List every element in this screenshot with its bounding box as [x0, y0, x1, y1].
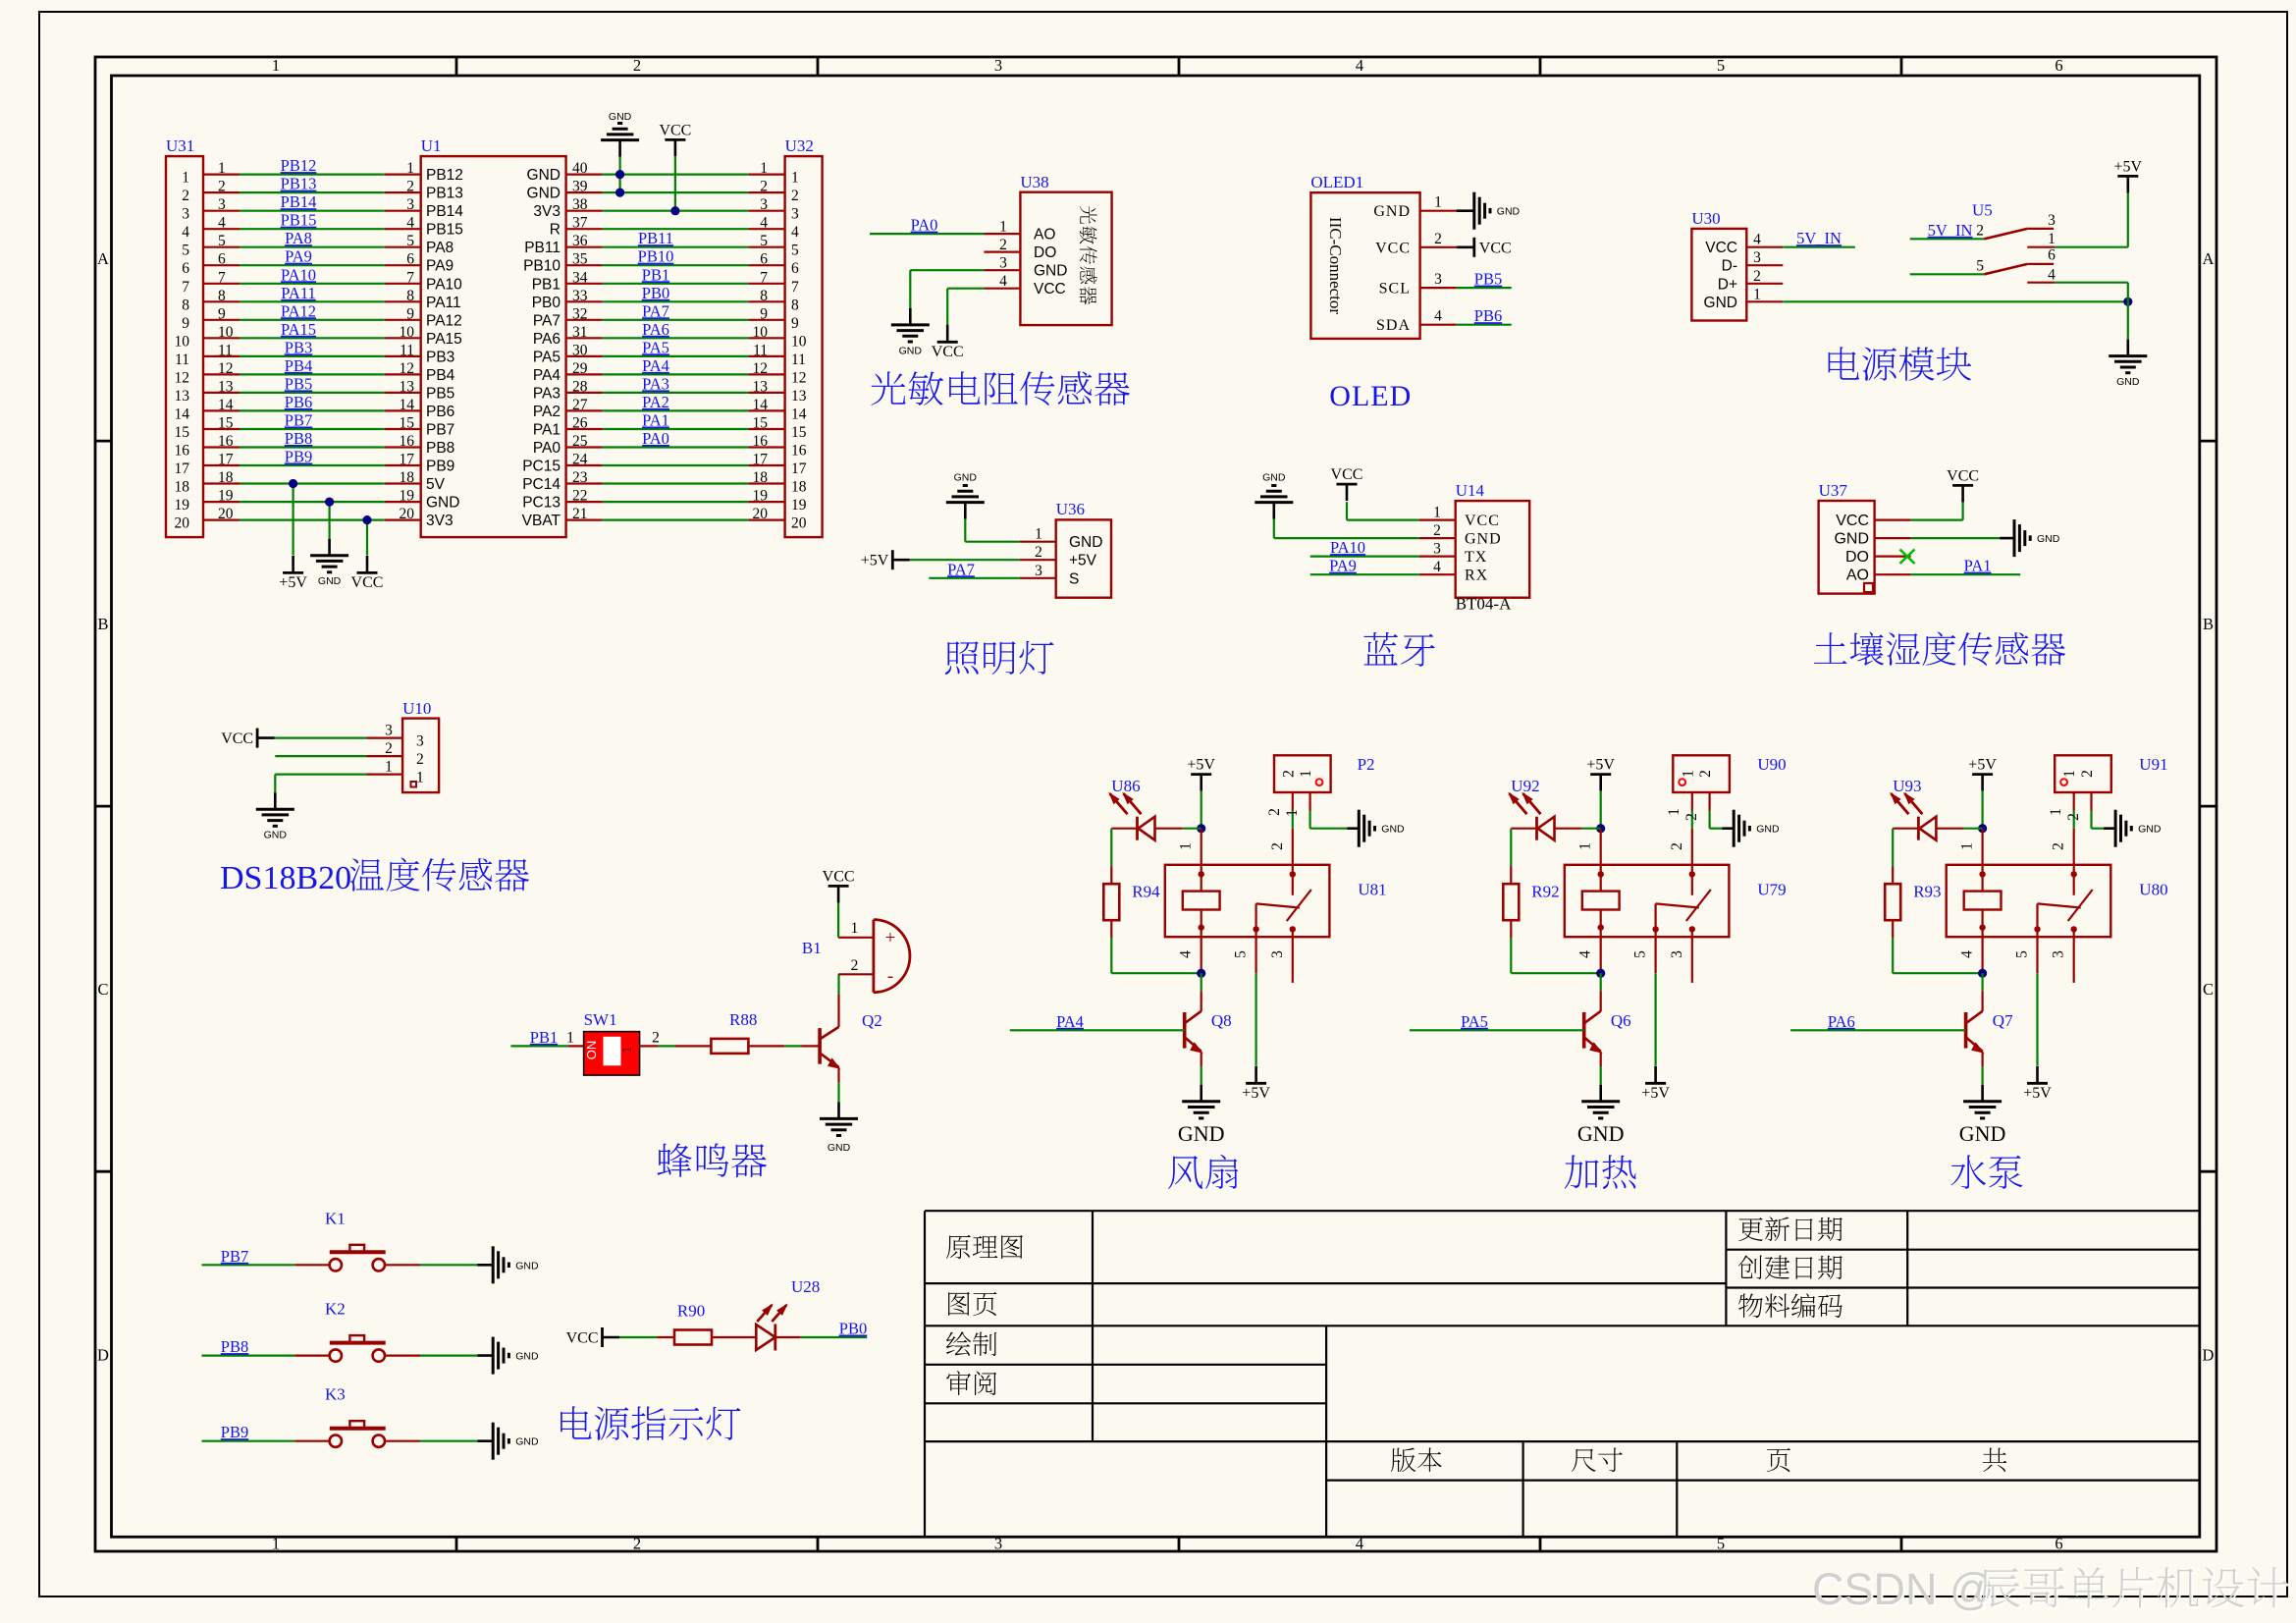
svg-text:3: 3 [406, 196, 414, 213]
svg-text:18: 18 [218, 469, 234, 486]
svg-text:K2: K2 [325, 1300, 346, 1319]
svg-text:U92: U92 [1511, 777, 1539, 795]
svg-text:GND: GND [899, 345, 923, 356]
svg-text:35: 35 [572, 251, 588, 268]
svg-text:U93: U93 [1893, 777, 1921, 795]
svg-text:20: 20 [753, 506, 769, 522]
svg-text:4: 4 [1178, 950, 1195, 958]
svg-text:36: 36 [572, 233, 588, 249]
svg-text:5: 5 [1632, 950, 1649, 958]
svg-text:PB11: PB11 [524, 240, 561, 256]
svg-text:12: 12 [218, 360, 234, 377]
svg-text:2: 2 [633, 1535, 641, 1553]
svg-text:PB0: PB0 [839, 1320, 867, 1338]
svg-text:GND: GND [527, 186, 561, 202]
svg-text:2: 2 [1669, 842, 1685, 850]
svg-text:20: 20 [791, 515, 807, 532]
svg-text:1: 1 [272, 1535, 280, 1553]
svg-text:GND: GND [2116, 376, 2140, 388]
svg-text:9: 9 [791, 315, 799, 332]
svg-text:17: 17 [400, 452, 415, 468]
svg-text:PA9: PA9 [1329, 557, 1357, 575]
svg-text:U28: U28 [791, 1277, 820, 1296]
svg-text:2: 2 [652, 1029, 660, 1046]
svg-text:2: 2 [1976, 223, 1984, 240]
svg-text:PB15: PB15 [426, 222, 463, 239]
svg-text:PA0: PA0 [533, 440, 561, 457]
svg-text:U37: U37 [1819, 481, 1848, 500]
svg-text:R93: R93 [1913, 883, 1941, 901]
svg-text:PB10: PB10 [523, 258, 561, 275]
svg-text:6: 6 [2048, 247, 2056, 264]
svg-text:2: 2 [182, 188, 189, 204]
svg-text:PA8: PA8 [285, 229, 312, 247]
svg-text:+: + [885, 928, 896, 948]
svg-text:3: 3 [1753, 249, 1761, 266]
svg-text:PA1: PA1 [642, 411, 669, 430]
svg-text:VCC: VCC [1331, 466, 1363, 483]
svg-text:9: 9 [406, 305, 414, 322]
svg-text:SCL: SCL [1379, 281, 1411, 298]
svg-text:PA1: PA1 [1964, 557, 1992, 575]
svg-text:10: 10 [753, 324, 769, 341]
svg-text:S: S [1069, 570, 1079, 587]
svg-text:P2: P2 [1358, 755, 1375, 774]
svg-text:PA0: PA0 [911, 216, 938, 235]
svg-text:PA11: PA11 [281, 284, 315, 302]
svg-text:PB9: PB9 [426, 459, 454, 475]
svg-text:1: 1 [1434, 194, 1442, 211]
svg-text:9: 9 [182, 315, 189, 332]
svg-text:4: 4 [2048, 266, 2056, 283]
svg-text:PB7: PB7 [426, 422, 454, 439]
svg-text:2: 2 [1280, 770, 1297, 778]
svg-text:PA3: PA3 [533, 385, 561, 402]
svg-text:VCC: VCC [351, 574, 384, 591]
svg-text:3: 3 [994, 56, 1002, 75]
svg-text:7: 7 [406, 269, 414, 286]
svg-text:27: 27 [572, 397, 588, 413]
svg-text:K1: K1 [325, 1209, 346, 1227]
svg-text:19: 19 [753, 488, 769, 505]
svg-text:7: 7 [218, 269, 226, 286]
svg-text:PB1: PB1 [532, 276, 561, 293]
svg-text:PB7: PB7 [221, 1247, 248, 1266]
svg-text:D: D [2203, 1345, 2215, 1364]
svg-text:1: 1 [1433, 505, 1441, 521]
svg-text:28: 28 [572, 378, 588, 395]
svg-text:CSDN @: CSDN @ [1812, 1564, 1995, 1614]
svg-text:13: 13 [218, 378, 234, 395]
svg-text:11: 11 [218, 342, 233, 358]
svg-text:1: 1 [2048, 231, 2056, 247]
svg-text:DO: DO [1034, 244, 1056, 261]
svg-text:OLED: OLED [1329, 380, 1412, 412]
svg-text:PB4: PB4 [426, 367, 455, 384]
svg-text:U81: U81 [1358, 881, 1386, 899]
svg-text:GND: GND [1262, 472, 1286, 484]
svg-text:15: 15 [753, 415, 769, 432]
svg-text:1: 1 [1680, 770, 1696, 778]
svg-text:12: 12 [400, 360, 415, 377]
svg-text:B: B [97, 615, 108, 633]
svg-text:PC15: PC15 [522, 459, 561, 475]
svg-text:1: 1 [1284, 809, 1301, 817]
svg-text:GND: GND [2138, 824, 2162, 836]
svg-text:PB0: PB0 [532, 295, 561, 311]
svg-text:34: 34 [572, 269, 588, 286]
svg-text:14: 14 [753, 397, 769, 413]
svg-text:6: 6 [760, 251, 768, 268]
svg-text:3: 3 [1433, 541, 1441, 558]
svg-text:13: 13 [753, 378, 769, 395]
svg-text:2: 2 [999, 237, 1007, 253]
svg-text:PB1: PB1 [530, 1028, 558, 1047]
svg-text:6: 6 [791, 260, 799, 277]
svg-text:PA9: PA9 [285, 247, 312, 266]
svg-text:DS18B20: DS18B20 [220, 860, 351, 896]
svg-text:16: 16 [175, 443, 190, 460]
svg-text:D: D [97, 1345, 109, 1364]
svg-text:19: 19 [175, 497, 190, 514]
svg-text:R88: R88 [729, 1010, 757, 1029]
svg-text:PB12: PB12 [281, 156, 317, 175]
svg-text:GND: GND [515, 1260, 539, 1271]
svg-text:8: 8 [406, 288, 414, 304]
svg-text:C: C [97, 980, 108, 999]
svg-text:3: 3 [1669, 950, 1685, 958]
svg-text:23: 23 [572, 469, 588, 486]
svg-text:PA15: PA15 [281, 320, 316, 339]
svg-text:U36: U36 [1056, 500, 1085, 518]
svg-text:VCC: VCC [1947, 467, 1979, 484]
svg-text:2: 2 [1269, 842, 1286, 850]
svg-text:1: 1 [619, 1046, 634, 1053]
svg-text:PA5: PA5 [533, 349, 561, 365]
svg-text:PA6: PA6 [533, 331, 561, 348]
svg-text:PB3: PB3 [285, 338, 312, 356]
svg-text:B: B [2203, 615, 2214, 633]
svg-text:7: 7 [760, 269, 768, 286]
svg-text:6: 6 [406, 251, 414, 268]
svg-text:GND: GND [1756, 824, 1780, 836]
svg-text:PA5: PA5 [642, 338, 669, 356]
svg-text:5: 5 [2014, 950, 2031, 958]
svg-text:14: 14 [218, 397, 234, 413]
svg-text:U31: U31 [166, 136, 194, 155]
svg-text:PA8: PA8 [426, 240, 454, 256]
svg-text:3: 3 [218, 196, 226, 213]
svg-text:+5V: +5V [1242, 1085, 1270, 1102]
svg-text:PA1: PA1 [533, 422, 561, 439]
svg-text:4: 4 [1433, 559, 1441, 575]
svg-text:19: 19 [218, 488, 234, 505]
svg-text:5: 5 [182, 243, 189, 259]
svg-text:PA2: PA2 [642, 393, 669, 411]
svg-text:33: 33 [572, 288, 588, 304]
svg-text:PA9: PA9 [426, 258, 454, 275]
svg-text:25: 25 [572, 433, 588, 450]
svg-text:GND: GND [1577, 1121, 1625, 1146]
svg-text:31: 31 [572, 324, 588, 341]
svg-text:PA7: PA7 [947, 560, 975, 578]
svg-text:13: 13 [400, 378, 415, 395]
svg-text:4: 4 [791, 224, 799, 241]
svg-text:10: 10 [791, 333, 807, 350]
svg-text:4: 4 [218, 215, 226, 232]
svg-text:6: 6 [218, 251, 226, 268]
svg-text:22: 22 [572, 488, 588, 505]
svg-text:2: 2 [1035, 544, 1042, 561]
svg-text:PB7: PB7 [285, 411, 312, 430]
svg-text:2: 2 [385, 740, 393, 757]
svg-text:PB9: PB9 [285, 448, 312, 466]
svg-text:17: 17 [218, 452, 234, 468]
svg-text:VCC: VCC [1375, 240, 1411, 256]
svg-text:1: 1 [2061, 770, 2078, 778]
svg-text:PA6: PA6 [642, 320, 669, 339]
svg-text:VCC: VCC [566, 1330, 599, 1347]
svg-text:2: 2 [633, 56, 641, 75]
svg-text:+5V: +5V [1187, 757, 1215, 774]
svg-text:U90: U90 [1757, 755, 1786, 774]
svg-text:11: 11 [175, 352, 189, 368]
svg-text:4: 4 [182, 224, 189, 241]
svg-text:PA7: PA7 [642, 301, 669, 320]
svg-text:PB9: PB9 [221, 1423, 248, 1441]
svg-text:GND: GND [1497, 206, 1521, 218]
svg-text:VCC: VCC [1479, 240, 1512, 256]
svg-text:PA5: PA5 [1461, 1012, 1488, 1031]
svg-text:AO: AO [1034, 227, 1055, 243]
svg-text:8: 8 [182, 297, 189, 313]
svg-text:GND: GND [426, 495, 459, 512]
svg-text:PB13: PB13 [426, 186, 463, 202]
svg-text:11: 11 [400, 342, 414, 358]
svg-text:2: 2 [2051, 842, 2067, 850]
svg-text:GND: GND [1834, 531, 1869, 548]
svg-text:+5V: +5V [2023, 1085, 2052, 1102]
svg-text:TX: TX [1465, 549, 1487, 566]
svg-text:PA10: PA10 [281, 265, 316, 284]
svg-text:8: 8 [218, 288, 226, 304]
svg-text:1: 1 [1577, 842, 1594, 850]
svg-text:A: A [2203, 249, 2215, 268]
svg-text:3: 3 [416, 733, 424, 750]
svg-text:2: 2 [1433, 522, 1441, 539]
svg-text:12: 12 [753, 360, 769, 377]
svg-text:PA6: PA6 [1828, 1012, 1855, 1031]
svg-text:4: 4 [999, 273, 1007, 290]
svg-text:PB0: PB0 [642, 284, 669, 302]
svg-text:PB5: PB5 [1474, 270, 1502, 289]
svg-text:16: 16 [791, 443, 807, 460]
svg-text:2: 2 [2079, 770, 2096, 778]
svg-text:13: 13 [791, 388, 807, 405]
svg-text:VCC: VCC [1465, 513, 1500, 529]
svg-text:PB8: PB8 [426, 440, 454, 457]
svg-text:VCC: VCC [823, 868, 855, 885]
svg-text:R94: R94 [1132, 883, 1160, 901]
svg-text:GND: GND [1034, 263, 1067, 280]
svg-text:Q7: Q7 [1993, 1011, 2013, 1030]
svg-text:3: 3 [182, 206, 189, 223]
svg-text:2: 2 [1434, 231, 1442, 247]
svg-text:PA7: PA7 [533, 312, 561, 329]
svg-text:5: 5 [218, 233, 226, 249]
svg-text:R92: R92 [1531, 883, 1559, 901]
svg-text:Q8: Q8 [1211, 1011, 1232, 1030]
svg-text:U32: U32 [785, 136, 814, 155]
svg-text:PA11: PA11 [426, 295, 461, 311]
svg-text:40: 40 [572, 160, 588, 177]
svg-text:10: 10 [175, 333, 190, 350]
svg-text:GND: GND [2037, 533, 2060, 545]
svg-text:24: 24 [572, 452, 588, 468]
svg-text:+5V: +5V [1069, 553, 1097, 569]
svg-text:4: 4 [1753, 232, 1761, 248]
svg-text:14: 14 [400, 397, 415, 413]
svg-text:5: 5 [791, 243, 799, 259]
svg-text:1: 1 [851, 920, 859, 937]
svg-text:4: 4 [1356, 1535, 1363, 1553]
svg-text:2: 2 [406, 179, 414, 195]
svg-text:18: 18 [175, 479, 190, 496]
svg-text:4: 4 [760, 215, 768, 232]
svg-text:GND: GND [1178, 1121, 1225, 1146]
svg-text:U1: U1 [421, 136, 442, 155]
svg-text:29: 29 [572, 360, 588, 377]
svg-text:2: 2 [2065, 813, 2082, 821]
svg-text:15: 15 [175, 424, 190, 441]
svg-text:Q6: Q6 [1611, 1011, 1631, 1030]
svg-text:U5: U5 [1972, 201, 1993, 220]
svg-text:20: 20 [400, 506, 415, 522]
svg-text:GND: GND [954, 472, 978, 484]
svg-text:VCC: VCC [221, 730, 253, 747]
svg-text:3: 3 [2048, 212, 2056, 229]
svg-text:SDA: SDA [1376, 317, 1411, 334]
svg-text:PB3: PB3 [426, 349, 454, 365]
svg-text:PB13: PB13 [281, 175, 317, 193]
svg-text:10: 10 [218, 324, 234, 341]
svg-text:1: 1 [1959, 842, 1976, 850]
svg-text:GND: GND [264, 830, 288, 841]
svg-text:1: 1 [1035, 526, 1042, 543]
svg-text:IIC-Connector: IIC-Connector [1326, 217, 1345, 314]
svg-text:12: 12 [175, 369, 190, 386]
svg-text:26: 26 [572, 415, 588, 432]
svg-text:1: 1 [218, 160, 226, 177]
svg-text:1: 1 [1753, 286, 1761, 302]
svg-text:13: 13 [175, 388, 190, 405]
svg-text:3: 3 [385, 723, 393, 739]
svg-text:3: 3 [999, 255, 1007, 272]
svg-text:PB14: PB14 [426, 203, 463, 220]
svg-text:15: 15 [400, 415, 415, 432]
svg-text:16: 16 [218, 433, 234, 450]
svg-text:5V_IN: 5V_IN [1796, 229, 1842, 247]
svg-text:5V: 5V [426, 476, 446, 493]
svg-text:15: 15 [791, 424, 807, 441]
svg-text:VBAT: VBAT [522, 513, 561, 529]
svg-text:3: 3 [1269, 950, 1286, 958]
svg-text:3V3: 3V3 [426, 513, 454, 529]
svg-text:PB11: PB11 [638, 229, 673, 247]
svg-text:32: 32 [572, 305, 588, 322]
svg-text:PB6: PB6 [1474, 306, 1502, 325]
svg-text:5: 5 [406, 233, 414, 249]
svg-text:17: 17 [791, 460, 807, 477]
svg-text:K3: K3 [325, 1385, 346, 1404]
svg-text:PC14: PC14 [522, 476, 561, 493]
svg-text:39: 39 [572, 179, 588, 195]
svg-text:VCC: VCC [932, 344, 964, 360]
svg-text:U38: U38 [1020, 173, 1048, 191]
svg-text:PB8: PB8 [221, 1337, 248, 1356]
svg-text:A: A [97, 249, 109, 268]
svg-text:PB5: PB5 [285, 374, 312, 393]
svg-text:2: 2 [1697, 770, 1714, 778]
svg-text:14: 14 [175, 406, 190, 422]
svg-text:9: 9 [760, 305, 768, 322]
svg-text:+5V: +5V [861, 553, 889, 569]
svg-text:VCC: VCC [1034, 281, 1066, 298]
svg-text:6: 6 [2055, 1535, 2062, 1553]
svg-text:4: 4 [1356, 56, 1363, 75]
svg-text:18: 18 [791, 479, 807, 496]
svg-text:GND: GND [318, 575, 342, 587]
svg-text:5V_IN: 5V_IN [1928, 221, 1973, 240]
svg-text:PB10: PB10 [638, 247, 674, 266]
svg-text:1: 1 [182, 170, 189, 187]
svg-text:3: 3 [994, 1535, 1002, 1553]
svg-text:GND: GND [527, 167, 561, 184]
svg-text:GND: GND [1704, 295, 1737, 311]
svg-text:14: 14 [791, 406, 807, 422]
svg-text:1: 1 [1298, 770, 1314, 778]
svg-text:VCC: VCC [659, 122, 691, 138]
svg-text:3: 3 [2051, 950, 2067, 958]
svg-text:1: 1 [272, 56, 280, 75]
svg-text:4: 4 [406, 215, 414, 232]
svg-text:D+: D+ [1718, 276, 1737, 293]
svg-text:7: 7 [182, 279, 189, 296]
svg-text:GND: GND [1959, 1121, 2006, 1146]
svg-text:2: 2 [1753, 268, 1761, 285]
svg-text:PA0: PA0 [642, 429, 669, 448]
svg-text:U86: U86 [1111, 777, 1140, 795]
svg-text:19: 19 [400, 488, 415, 505]
svg-text:37: 37 [572, 215, 588, 232]
svg-text:2: 2 [1266, 808, 1283, 816]
svg-text:5: 5 [1717, 56, 1725, 75]
svg-text:11: 11 [791, 352, 806, 368]
svg-text:10: 10 [400, 324, 415, 341]
svg-text:3V3: 3V3 [533, 203, 561, 220]
svg-text:B1: B1 [802, 939, 822, 957]
svg-text:GND: GND [828, 1142, 851, 1154]
svg-text:PA4: PA4 [533, 367, 561, 384]
svg-text:VCC: VCC [1705, 240, 1737, 256]
svg-text:PB6: PB6 [426, 404, 454, 420]
svg-text:R90: R90 [677, 1301, 705, 1320]
svg-text:2: 2 [1683, 813, 1700, 821]
svg-text:U30: U30 [1691, 209, 1720, 228]
svg-text:PB8: PB8 [285, 429, 312, 448]
svg-text:+5V: +5V [2114, 158, 2143, 175]
svg-text:3: 3 [1434, 271, 1442, 288]
